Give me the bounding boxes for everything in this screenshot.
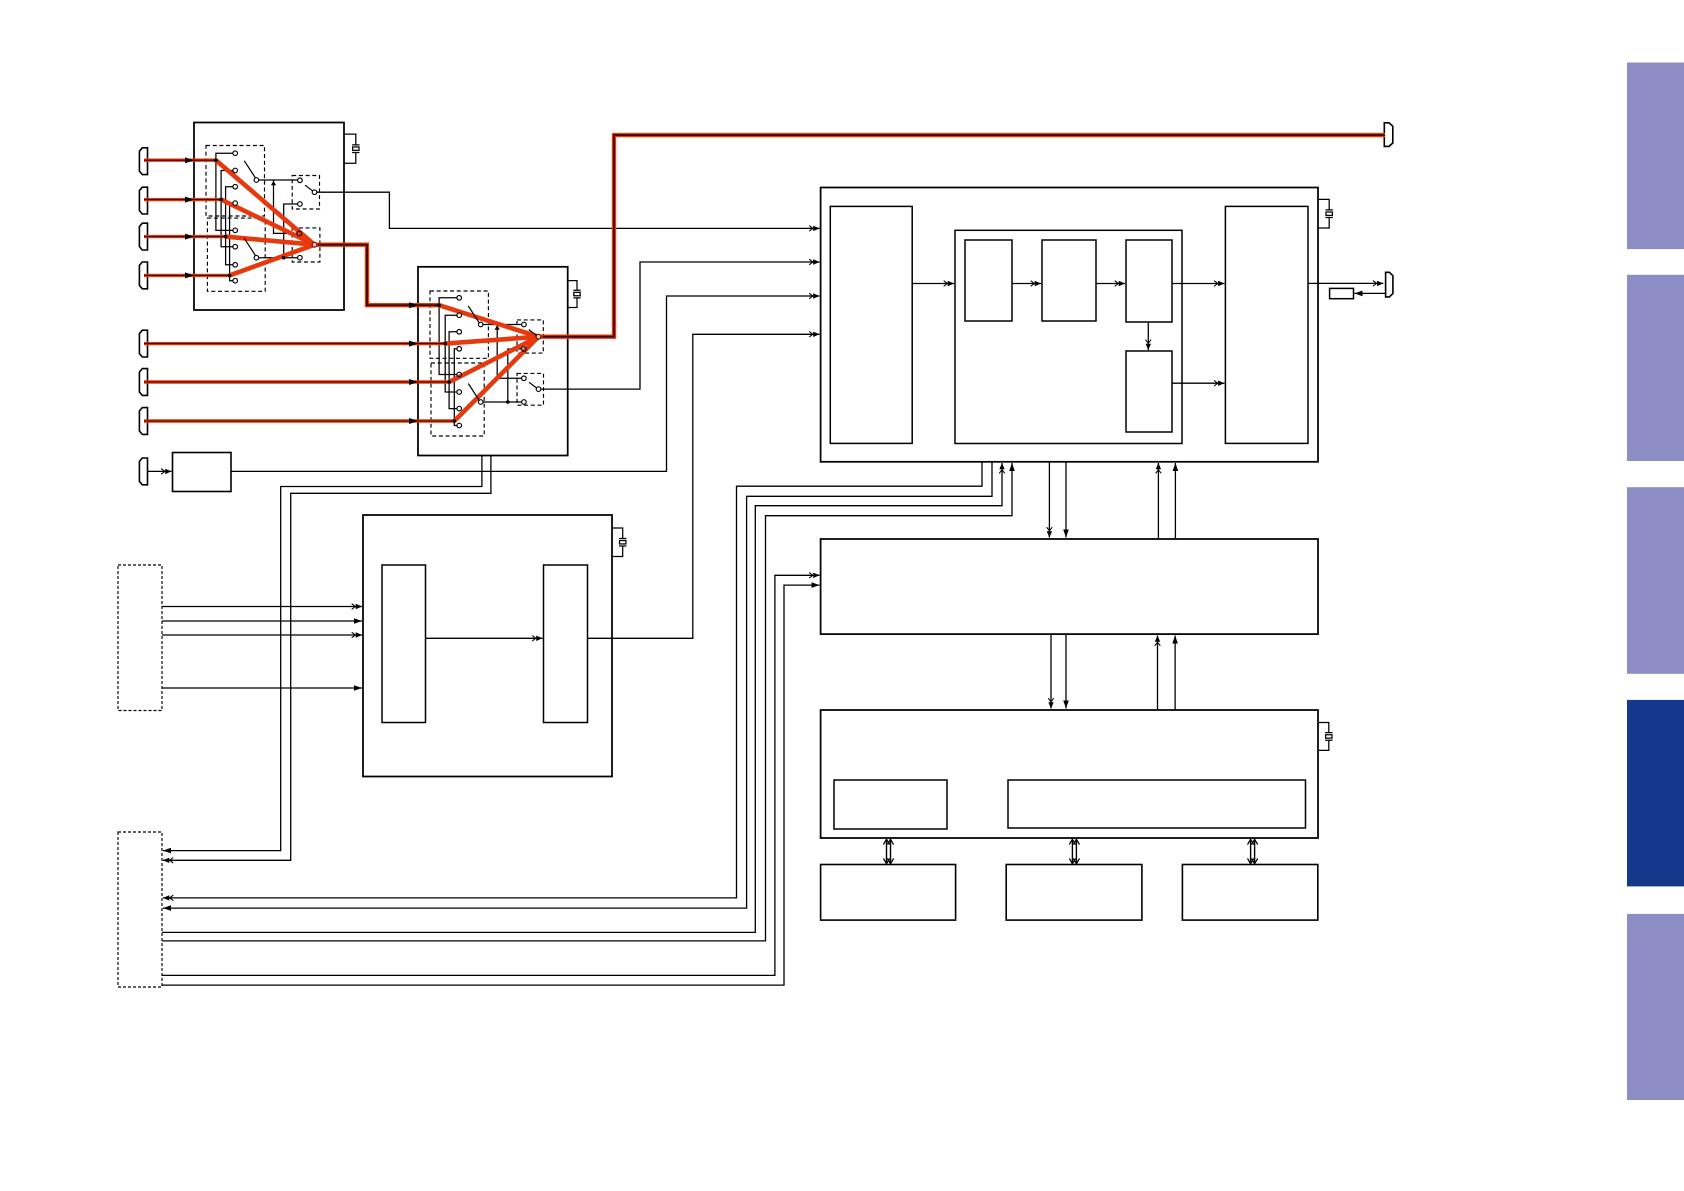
- U1 bank1 contact 3: [233, 184, 238, 189]
- U2 selector bank 2 (dashed): [431, 363, 484, 436]
- U1 bank2 common to switch2 bottom: [259, 257, 298, 259]
- U1 switch2 top contact (on red): [297, 231, 302, 236]
- wire U6 to U5 up 2: [1174, 636, 1176, 711]
- U2 bank1 contact 1: [457, 296, 462, 301]
- connector P9 (top right, antenna out): [1384, 123, 1393, 147]
- wire U4 output to P10: [1308, 282, 1383, 284]
- core P3 wire: [144, 236, 226, 238]
- arrows on red wires: [185, 157, 418, 424]
- U2 junction dot bank2 common: [506, 400, 510, 404]
- red wire P4 to U1: [144, 274, 230, 277]
- U1 bank1 common to switch1: [259, 179, 298, 181]
- red wire P5 to U2: [144, 342, 445, 345]
- wire J2 to U4 line 3: [162, 463, 1002, 932]
- bidirectional link U6-M3: [1071, 839, 1073, 863]
- core P4 wire: [144, 274, 230, 276]
- switch box U2 outline: [418, 267, 568, 456]
- U1 bank1 contact 1: [233, 151, 238, 156]
- U4 middle container block: [955, 230, 1182, 443]
- U4 sub-block A: [965, 240, 1012, 321]
- arrow into U2 input3: [409, 379, 418, 385]
- U2 junction dot input4: [453, 419, 457, 423]
- red fan U1 input4 to apex: [230, 245, 315, 276]
- sidebar tab 4: [1627, 700, 1684, 887]
- wire U3 output to U4 input 4: [588, 334, 820, 638]
- wire U6 to U5 up 1: [1157, 636, 1159, 711]
- U3 right sub-block: [544, 565, 588, 723]
- U1 apex contact (red node): [312, 242, 317, 247]
- U2 bank wiring: input 4 riser: [454, 349, 457, 426]
- crystal X4 on U4: [1317, 199, 1333, 228]
- U1 common branch down to switch2 top: [274, 180, 298, 233]
- U1 T-junction up arrow: [271, 181, 276, 186]
- U2 T-junction up arrow: [495, 325, 500, 330]
- wire U1 switch1 output to U4 input 1: [315, 192, 820, 228]
- memory box M2: [821, 865, 956, 921]
- wire U4 internal: D to right block: [1172, 382, 1224, 384]
- red fan U2 input4 to apex: [454, 337, 538, 421]
- U2 bank1 contact 4: [457, 347, 462, 352]
- U2 bank wiring: input 2 riser: [445, 315, 457, 392]
- red wire P7 to U2: [144, 419, 454, 422]
- main processor box U4 outline: [821, 188, 1318, 462]
- connector P4: [139, 262, 147, 289]
- U2 junction dot input2: [443, 342, 447, 346]
- U1 bank1 blade: [244, 161, 255, 178]
- core P5 wire: [144, 343, 445, 345]
- connector P3: [139, 223, 147, 250]
- core P2 wire: [144, 199, 221, 201]
- U2 switch2 moving contact: [536, 387, 541, 392]
- U2 bank1 contact 2: [457, 313, 462, 318]
- U1 bank1 contact 2: [233, 168, 238, 173]
- arrow into U1 input1: [185, 157, 194, 163]
- wire U5 to U4 up 2: [1174, 463, 1176, 539]
- U1 bank wiring: input 4 riser: [230, 203, 233, 281]
- U1 selector bank 1 (dashed): [206, 146, 265, 217]
- wire J2 to U4 line 4: [162, 463, 1012, 941]
- arrow into U2 input4: [409, 418, 418, 424]
- tuner box U3 outline: [363, 515, 612, 777]
- wire U5 to U6 down 2: [1065, 634, 1067, 708]
- U1 bank wiring: input 3 riser: [226, 187, 233, 265]
- arrow into U1 input4: [185, 272, 194, 278]
- red trunk U1 apex to U2 input1: [315, 245, 440, 306]
- connector block J1 (dashed): [118, 565, 162, 711]
- core P7 wire: [144, 420, 454, 422]
- U1 output switch 1 (dashed): [292, 176, 319, 210]
- sidebar tab 3: [1627, 487, 1684, 674]
- U2 bank2 common to switch2 bottom: [483, 401, 522, 403]
- wire P8 to M1: [148, 470, 172, 472]
- U1 bank wiring: input 2 riser: [221, 171, 233, 247]
- U4 right sub-block: [1225, 206, 1308, 443]
- red fan U1 input1 to apex: [216, 160, 315, 245]
- connector P7: [139, 408, 147, 435]
- red wire P2 to U1: [144, 198, 221, 201]
- U1 junction dot input1: [214, 158, 218, 162]
- U1 junction dot input3: [224, 235, 228, 239]
- U1 junction dot bank2 common: [282, 256, 286, 260]
- core trunk U1-U2: [318, 245, 439, 306]
- resistor R1 box: [1330, 288, 1354, 298]
- U2 bank2 common contact: [478, 400, 483, 405]
- U1 bank1 common contact: [254, 178, 259, 183]
- connector P10 (audio out): [1386, 272, 1393, 297]
- U2 junction dot input1: [437, 303, 441, 307]
- U2 bank1 common contact: [478, 322, 483, 327]
- core P1 wire: [144, 159, 216, 161]
- U2 bank1 blade: [468, 306, 479, 323]
- U2 switch2 top contact: [522, 376, 527, 381]
- wire M1 to U4 input 3: [231, 296, 820, 471]
- wire U4 internal: C down to D: [1147, 322, 1149, 350]
- connector block J2 (dashed): [118, 832, 162, 987]
- bidirectional link U6-M4: [1250, 839, 1252, 863]
- arrow into U1 input2: [185, 197, 194, 203]
- U1 selector bank 2 (dashed): [207, 218, 265, 291]
- sidebar tab 2: [1627, 275, 1684, 461]
- wire U4 to U5 down 1: [1048, 462, 1050, 538]
- controller box U6 outline: [821, 710, 1318, 838]
- U1 junction dot input2: [219, 198, 223, 202]
- wire U4 to J2 line 1: [163, 462, 982, 898]
- U1 switch1 top contact: [298, 178, 303, 183]
- switch box U1 outline: [194, 123, 344, 311]
- red wire P1 to U1: [144, 158, 216, 161]
- U6 left sub-block: [834, 780, 947, 829]
- U2 bank1 common to switch1: [483, 324, 522, 326]
- sidebar tab 5: [1627, 914, 1684, 1100]
- U4 sub-block C: [1126, 240, 1172, 322]
- wire P10 to R1: [1355, 292, 1386, 294]
- crystal X2 on U2: [568, 281, 581, 308]
- U1 switch1 moving contact: [312, 190, 317, 195]
- wire U4 internal: B to C: [1096, 283, 1125, 285]
- wire U2 aux out B to J2: [163, 456, 491, 861]
- U2 bank2 contact 2: [457, 390, 462, 395]
- red wire P6 to U2: [144, 380, 449, 383]
- U1 bank2 contact 3: [233, 263, 238, 268]
- red fan U1 input2 to apex: [221, 200, 314, 245]
- wire U2 aux out A to J2: [163, 456, 482, 851]
- U1 bank2 blade: [244, 238, 255, 255]
- U2 bank2 contact 1: [457, 372, 462, 377]
- connector P5: [139, 330, 147, 357]
- crystal X5 on U6: [1318, 723, 1333, 751]
- U2 switch1 bottom contact (on red): [522, 347, 527, 352]
- core trunk U2-P9: [543, 135, 1386, 337]
- wire J1 to U3 input 1: [162, 606, 362, 608]
- U4 left sub-block: [830, 206, 912, 443]
- U4 sub-block B: [1042, 240, 1096, 321]
- wire U3 internal left to right: [426, 637, 543, 639]
- wire U4 internal: left block to container: [912, 283, 954, 285]
- U2 switch1 top contact: [522, 322, 527, 327]
- U1 bank wiring: input 1 riser: [216, 153, 233, 230]
- wire J1 to U3 input 2: [162, 620, 362, 622]
- red fan U2 input2 to apex: [445, 337, 538, 344]
- U1 bank2 common contact: [254, 255, 259, 260]
- wire U4 to U5 down 2: [1065, 462, 1067, 538]
- U2 bank2 contact 4: [457, 423, 462, 428]
- wire U5 to U6 down 1: [1050, 634, 1052, 708]
- core P6 wire: [144, 381, 449, 383]
- arrow into U1 input3: [185, 234, 194, 240]
- connector P1: [139, 148, 147, 175]
- wire J2 to U5 line 6: [162, 585, 820, 985]
- red wire P3 to U1: [144, 235, 226, 238]
- wire J1 to U3 input 3: [162, 634, 362, 636]
- arrow into U2 input1: [409, 302, 418, 308]
- U1 bank2 contact 4: [233, 278, 238, 283]
- U2 switch2 blade: [529, 382, 537, 388]
- dark cores over red wires: [144, 160, 454, 421]
- U2 apex contact (red node): [536, 334, 541, 339]
- bidirectional link U6-M2: [886, 839, 888, 863]
- red fan U1 input3 to apex: [226, 237, 315, 245]
- wire U5 to U4 up 1: [1157, 463, 1159, 539]
- U1 bank1 contact 4: [233, 201, 238, 206]
- U2 switch1 bottom contact branch: [508, 349, 522, 402]
- U4 sub-block D: [1126, 351, 1172, 432]
- connector P8: [139, 458, 147, 485]
- U2 bank wiring: input 1 riser: [439, 298, 457, 375]
- connector P6: [139, 369, 147, 396]
- sidebar tab 1: [1627, 63, 1684, 250]
- wire J2 to U5 line 5: [162, 575, 820, 975]
- U1 bank2 contact 2: [233, 244, 238, 249]
- U2 switch1 blade: [529, 330, 537, 336]
- U2 switch2 bottom contact: [522, 400, 527, 405]
- memory box M3: [1006, 865, 1142, 921]
- U1 switch1 blade: [305, 185, 313, 191]
- red fan U2 input1 to apex: [439, 305, 538, 337]
- U1 switch2 bottom contact: [298, 255, 303, 260]
- U2 bank2 blade: [468, 384, 479, 401]
- connector P2: [139, 187, 147, 214]
- U1 output switch 2 (dashed): [292, 228, 320, 262]
- crystal X3 on U3: [612, 528, 626, 557]
- module M1 small box (buffer): [173, 453, 232, 492]
- U1 bank2 contact 1: [233, 228, 238, 233]
- wire U4 internal: A to B: [1012, 283, 1041, 285]
- red fan U2 input3 to apex: [449, 337, 538, 382]
- memory box M4: [1182, 865, 1317, 921]
- U1 junction dot input4: [228, 274, 232, 278]
- U1 switch1 bottom contact: [298, 202, 303, 207]
- U2 output switch 1 (dashed): [517, 320, 543, 353]
- U2 bank1 contact 3: [457, 330, 462, 335]
- wire U2 switch2 output to U4 input 2: [539, 262, 820, 389]
- red trunk U2 apex to P9: [539, 135, 1386, 337]
- U2 common branch down to switch2 top: [497, 325, 522, 379]
- U2 output switch 2 (dashed): [517, 373, 544, 405]
- wire J1 to U3 input 4: [162, 687, 362, 689]
- U6 wide sub-block: [1008, 780, 1306, 828]
- interface box U5 (wide): [821, 539, 1318, 634]
- arrow into U2 input2: [409, 341, 418, 347]
- U3 left sub-block: [382, 565, 426, 723]
- U2 selector bank 1 (dashed): [430, 291, 488, 358]
- U2 bank wiring: input 3 riser: [449, 332, 457, 409]
- wire U4 to J2 line 2: [163, 462, 992, 908]
- wire U4 internal: C to right block: [1172, 283, 1224, 285]
- crystal X1 on U1: [344, 134, 360, 163]
- U2 bank2 contact 3: [457, 406, 462, 411]
- U1 switch1 bottom contact branch: [284, 204, 298, 258]
- red highlighted signal path: [144, 135, 1385, 421]
- U2 junction dot input3: [447, 380, 451, 384]
